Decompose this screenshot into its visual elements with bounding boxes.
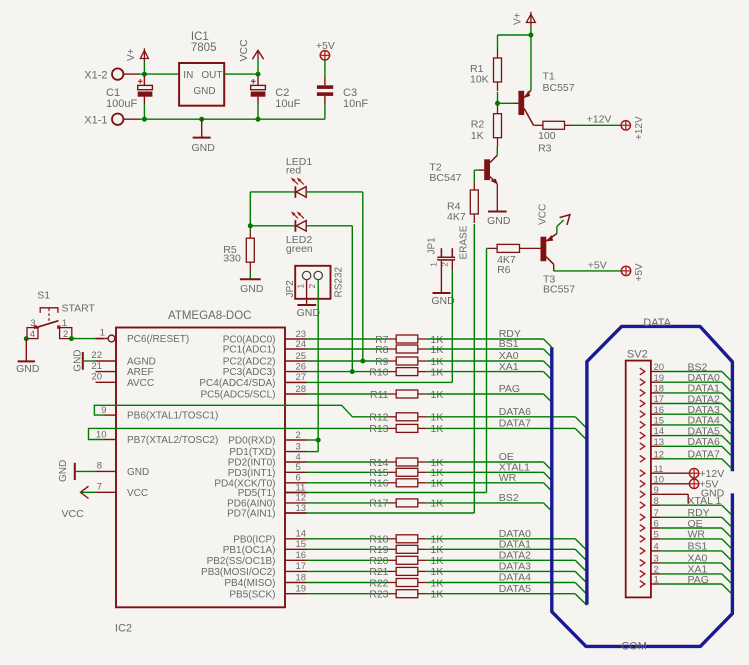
svg-text:17: 17 bbox=[296, 561, 307, 572]
svg-text:28: 28 bbox=[296, 384, 307, 395]
IC2 pin 4 PD2(INT0) bbox=[228, 452, 307, 469]
IC2 pin 14 PB0(ICP) bbox=[233, 529, 306, 546]
SV2 pin 19 (DATA0) bbox=[640, 372, 732, 392]
svg-text:GND: GND bbox=[73, 349, 84, 371]
svg-text:RS232: RS232 bbox=[333, 266, 344, 297]
svg-text:DATA7: DATA7 bbox=[688, 449, 720, 461]
transistor T3 BC557 (PNP) bbox=[541, 234, 576, 296]
SV2 pin 14 (DATA5) bbox=[640, 425, 732, 445]
IC2 pin 23 PC0(ADC0) bbox=[223, 329, 307, 346]
svg-text:1K: 1K bbox=[431, 498, 444, 510]
svg-text:AVCC: AVCC bbox=[127, 378, 154, 389]
IC2 pin 26 PC3(ADC3) bbox=[223, 361, 307, 378]
svg-text:PC5(ADC5/SCL): PC5(ADC5/SCL) bbox=[200, 390, 275, 401]
svg-text:20: 20 bbox=[91, 372, 102, 383]
svg-text:DATA7: DATA7 bbox=[499, 418, 531, 430]
svg-text:R17: R17 bbox=[369, 498, 388, 510]
ground symbol below T2 bbox=[487, 212, 511, 228]
wire net RDY to bus bbox=[427, 339, 552, 347]
svg-text:SV2: SV2 bbox=[627, 349, 648, 361]
resistor R16 1K (WR) bbox=[307, 478, 444, 490]
bus COM bbox=[552, 347, 733, 652]
svg-text:R22: R22 bbox=[369, 577, 388, 589]
svg-text:DATA5: DATA5 bbox=[499, 583, 531, 595]
supply symbol V+ (left) bbox=[126, 48, 149, 74]
connector JP2 RS232 bbox=[285, 266, 344, 299]
svg-text:13: 13 bbox=[296, 503, 307, 514]
svg-text:IN: IN bbox=[183, 70, 193, 81]
svg-text:1: 1 bbox=[295, 284, 305, 289]
supply pad +5V (T3) bbox=[621, 263, 645, 281]
bus DATA bbox=[587, 317, 733, 604]
svg-text:ERASE: ERASE bbox=[458, 225, 469, 259]
net label OE bbox=[499, 451, 514, 463]
resistor R19 1K (DATA1) bbox=[307, 544, 444, 556]
IC2 pin 28 PC5(ADC5/SCL) bbox=[200, 384, 306, 401]
svg-text:+5V: +5V bbox=[588, 259, 607, 271]
svg-text:XTAL 1: XTAL 1 bbox=[688, 495, 722, 507]
net label BS1 bbox=[499, 338, 519, 350]
svg-text:24: 24 bbox=[296, 339, 307, 350]
svg-text:R23: R23 bbox=[369, 589, 388, 601]
svg-text:+5V: +5V bbox=[634, 263, 645, 281]
svg-text:1K: 1K bbox=[431, 589, 444, 601]
wire LED2 bbox=[250, 192, 352, 372]
IC2 pin 18 PB4(MISO) bbox=[224, 572, 306, 589]
SV2 pin 18 (DATA1) bbox=[640, 383, 732, 403]
svg-text:R8: R8 bbox=[375, 344, 389, 356]
resistor R2 1K bbox=[471, 105, 502, 147]
IC2 pin 11 PD5(T1) bbox=[238, 482, 307, 499]
SV2 pin 1 (PAG) bbox=[640, 574, 732, 594]
svg-text:R10: R10 bbox=[369, 366, 388, 378]
wire PB6 loop to R12 (XTAL1 net) bbox=[94, 405, 387, 417]
svg-text:5: 5 bbox=[296, 462, 301, 473]
svg-text:11: 11 bbox=[296, 482, 306, 493]
svg-text:1K: 1K bbox=[431, 478, 444, 490]
resistor R13 1K (DATA7) bbox=[369, 423, 443, 435]
ground symbol below JP2 bbox=[297, 305, 321, 319]
wire T2 base to R4 bbox=[474, 170, 478, 181]
resistor R15 1K (XTAL1) bbox=[307, 467, 444, 479]
svg-text:1: 1 bbox=[654, 575, 659, 586]
IC2 pin 1 PC6(/RESET) bbox=[96, 328, 190, 345]
SV2 pin 13 (DATA6) bbox=[640, 436, 732, 456]
SV2 pin 2 (XA1) bbox=[640, 564, 732, 584]
IC2 pin 15 PB1(OC1A) bbox=[223, 539, 307, 556]
SV2 pin 4 (BS1) bbox=[640, 541, 732, 561]
SV2 pin 3 (XA0) bbox=[640, 553, 732, 573]
svg-text:PB6(XTAL1/TOSC1): PB6(XTAL1/TOSC1) bbox=[127, 411, 218, 422]
wire LED1 anode/cathode bbox=[250, 192, 362, 361]
ground symbol below R5 bbox=[240, 279, 264, 295]
svg-text:15: 15 bbox=[296, 539, 307, 550]
net label DATA5 bbox=[499, 583, 531, 595]
svg-text:BC557: BC557 bbox=[543, 82, 575, 94]
svg-text:START: START bbox=[62, 303, 96, 315]
svg-text:+12V: +12V bbox=[587, 114, 612, 126]
IC2 pin 10 PB7(XTAL2/TOSC2) bbox=[96, 429, 218, 446]
svg-text:1K: 1K bbox=[431, 412, 444, 424]
net label RDY bbox=[499, 328, 521, 340]
node junctions on ground rail bbox=[142, 117, 261, 122]
wire net BS2 to bus bbox=[427, 503, 552, 511]
IC2 pin 12 PD6(AIN0) bbox=[227, 493, 306, 510]
wire R6 to IC2 PD5 (pin 11) bbox=[285, 248, 488, 492]
svg-text:2: 2 bbox=[296, 430, 301, 441]
SV2 pin 10 (+5V) bbox=[640, 474, 719, 490]
svg-text:WR: WR bbox=[688, 529, 706, 541]
SV2 pin 8 (XTAL 1) bbox=[640, 495, 732, 515]
svg-text:BS1: BS1 bbox=[688, 541, 708, 553]
connector pad X1-1 bbox=[84, 114, 123, 127]
wire PD1 to JP2 line bbox=[307, 451, 319, 453]
svg-text:VCC: VCC bbox=[537, 204, 548, 225]
node junctions at S1 bbox=[24, 336, 74, 341]
supply pad +12V (T1) bbox=[621, 116, 645, 140]
svg-text:DATA4: DATA4 bbox=[499, 572, 531, 584]
svg-text:10: 10 bbox=[96, 429, 107, 440]
supply pad +5V (top) bbox=[316, 40, 335, 60]
resistor R17 1K (BS2) bbox=[307, 498, 444, 510]
IC2 ATMEGA8-DOC box bbox=[115, 310, 285, 635]
svg-text:4: 4 bbox=[30, 329, 35, 340]
net label DATA0 bbox=[499, 528, 531, 540]
wire ground rail X1-1 to C3 bbox=[123, 118, 325, 120]
svg-text:AREF: AREF bbox=[127, 367, 154, 378]
svg-text:red: red bbox=[286, 164, 301, 176]
node junction V+/T1 emitter bbox=[528, 33, 533, 38]
svg-text:GND: GND bbox=[240, 283, 264, 295]
resistor R18 1K (DATA0) bbox=[307, 534, 444, 546]
LED2 green bbox=[286, 211, 313, 255]
IC2 pin 13 PD7(AIN1) bbox=[227, 503, 306, 520]
wire X1-2 to IC1 IN bbox=[123, 73, 179, 75]
svg-text:GND: GND bbox=[297, 307, 321, 319]
wire R3 to +12V pad bbox=[574, 114, 622, 126]
svg-text:1K: 1K bbox=[431, 389, 444, 401]
SV2 pin 17 (DATA2) bbox=[640, 393, 732, 413]
svg-text:PC1(ADC1): PC1(ADC1) bbox=[223, 345, 276, 356]
connector pad X1-2 bbox=[84, 68, 123, 81]
svg-text:PB1(OC1A): PB1(OC1A) bbox=[223, 545, 276, 556]
IC2 pin 9 PB6(XTAL1/TOSC1) bbox=[101, 405, 218, 422]
svg-text:ATMEGA8-DOC: ATMEGA8-DOC bbox=[168, 310, 252, 322]
svg-text:1K: 1K bbox=[431, 423, 444, 435]
wire net DATA5 to bus bbox=[427, 594, 587, 606]
SV2 pin 11 (+12V) bbox=[640, 464, 724, 480]
IC2 pin 7 VCC bbox=[96, 482, 149, 499]
IC2 pin 2 PD0(RXD) bbox=[228, 430, 306, 447]
svg-text:27: 27 bbox=[296, 372, 307, 383]
resistor R10 1K (XA1) bbox=[307, 366, 444, 378]
svg-text:VCC: VCC bbox=[238, 39, 250, 62]
svg-text:PD1(TXD): PD1(TXD) bbox=[229, 447, 275, 458]
capacitor C2 10uF bbox=[251, 76, 301, 119]
svg-text:2: 2 bbox=[63, 329, 68, 340]
wire net DATA6 to bus bbox=[427, 417, 587, 429]
SV2 pin 12 (DATA7) bbox=[640, 449, 732, 469]
svg-text:4: 4 bbox=[654, 542, 659, 553]
wire V+ rail to R1 top bbox=[498, 35, 531, 49]
resistor R22 1K (DATA4) bbox=[307, 577, 444, 589]
svg-text:BS2: BS2 bbox=[499, 492, 519, 504]
svg-text:R13: R13 bbox=[369, 423, 388, 435]
svg-text:PC2(ADC2): PC2(ADC2) bbox=[223, 357, 276, 368]
svg-text:PB4(MISO): PB4(MISO) bbox=[224, 578, 275, 589]
IC2 pin 22 AGND bbox=[91, 350, 155, 367]
svg-text:100uF: 100uF bbox=[106, 98, 137, 110]
supply symbol VCC (T3) bbox=[537, 204, 570, 234]
svg-text:R16: R16 bbox=[369, 478, 388, 490]
IC2 pin 27 PC4(ADC4/SDA) bbox=[199, 372, 306, 389]
supply symbol VCC (top-left) bbox=[238, 39, 264, 74]
IC2 pin 6 PD4(XCK/T0) bbox=[214, 473, 306, 490]
IC2 pin 3 PD1(TXD) bbox=[229, 441, 306, 458]
svg-text:AGND: AGND bbox=[127, 357, 156, 368]
wire PD0 to JP2 line bbox=[307, 439, 319, 441]
svg-text:V+: V+ bbox=[126, 48, 137, 61]
svg-text:JP2: JP2 bbox=[285, 280, 296, 298]
resistor R14 1K (OE) bbox=[307, 457, 444, 469]
svg-text:4K7: 4K7 bbox=[447, 211, 466, 223]
svg-text:GND: GND bbox=[193, 86, 215, 97]
svg-text:1K: 1K bbox=[431, 366, 444, 378]
svg-text:R2: R2 bbox=[471, 119, 485, 131]
svg-text:7805: 7805 bbox=[191, 42, 217, 54]
svg-text:10uF: 10uF bbox=[275, 98, 300, 110]
svg-text:PB2(SS/OC1B): PB2(SS/OC1B) bbox=[207, 556, 276, 567]
svg-text:1K: 1K bbox=[431, 577, 444, 589]
svg-text:VCC: VCC bbox=[127, 488, 148, 499]
wire IC1 OUT to VCC node bbox=[224, 73, 258, 75]
wire net DATA0 to bus bbox=[427, 539, 587, 551]
net label XTAL1 bbox=[499, 462, 530, 474]
net label XA1 bbox=[499, 361, 519, 373]
resistor R20 1K (DATA2) bbox=[307, 555, 444, 567]
node junction R1/R2/T1 base bbox=[495, 101, 500, 106]
svg-text:R3: R3 bbox=[538, 142, 552, 154]
svg-text:PC4(ADC4/SDA): PC4(ADC4/SDA) bbox=[199, 378, 275, 389]
ground symbol below JP1 bbox=[431, 293, 455, 307]
svg-text:3: 3 bbox=[654, 554, 659, 565]
net label BS2 bbox=[499, 492, 519, 504]
svg-text:DATA6: DATA6 bbox=[499, 406, 531, 418]
SV2 pin 20 (BS2) bbox=[640, 361, 732, 381]
node junction rail/C1 bbox=[142, 72, 147, 77]
svg-text:PD0(RXD): PD0(RXD) bbox=[228, 436, 275, 447]
IC2 pin 17 PB3(MOSI/OC2) bbox=[201, 561, 306, 578]
svg-text:BC557: BC557 bbox=[543, 283, 575, 295]
svg-text:X1-2: X1-2 bbox=[84, 69, 107, 81]
net label PAG bbox=[499, 383, 520, 395]
svg-text:PB0(ICP): PB0(ICP) bbox=[233, 534, 275, 545]
svg-text:COM: COM bbox=[621, 641, 647, 653]
net label DATA1 bbox=[499, 539, 531, 551]
wire R1 to T1 base bbox=[498, 92, 514, 103]
node junction LED1/LED2/R5 bbox=[248, 223, 253, 228]
svg-text:6: 6 bbox=[654, 519, 659, 530]
resistor R9 1K (XA0) bbox=[307, 356, 444, 368]
IC2 pin 25 PC2(ADC2) bbox=[223, 351, 307, 368]
net label DATA2 bbox=[499, 550, 531, 562]
resistor R6 4K7 bbox=[488, 244, 540, 276]
svg-text:JP1: JP1 bbox=[427, 237, 438, 255]
wire net WR to bus bbox=[427, 483, 552, 491]
svg-text:PB5(SCK): PB5(SCK) bbox=[229, 589, 275, 600]
svg-text:R12: R12 bbox=[369, 412, 388, 424]
wire net DATA2 to bus bbox=[427, 560, 587, 572]
svg-text:22: 22 bbox=[91, 350, 102, 361]
SV2 pin 5 (WR) bbox=[640, 529, 732, 549]
svg-text:21: 21 bbox=[91, 361, 102, 372]
IC2 pin 19 PB5(SCK) bbox=[229, 584, 306, 601]
svg-text:T1: T1 bbox=[543, 71, 555, 83]
svg-text:1K: 1K bbox=[431, 344, 444, 356]
resistor R5 330 bbox=[223, 229, 254, 271]
wire net DATA4 to bus bbox=[427, 583, 587, 595]
wire net PAG to bus bbox=[427, 394, 552, 402]
IC2 pin 20 AVCC bbox=[91, 372, 154, 389]
wire S1 to IC2 pin1 bbox=[72, 338, 104, 340]
node junction rail/C2 bbox=[256, 72, 261, 77]
svg-text:GND: GND bbox=[16, 363, 40, 375]
svg-text:PB3(MOSI/OC2): PB3(MOSI/OC2) bbox=[201, 567, 275, 578]
capacitor C3 10nF bbox=[317, 60, 368, 119]
resistor R3 100 bbox=[534, 121, 574, 154]
svg-text:19: 19 bbox=[296, 584, 307, 595]
wire S1 pin4 to ground bbox=[25, 339, 27, 362]
svg-text:25: 25 bbox=[296, 351, 307, 362]
resistor R21 1K (DATA3) bbox=[307, 566, 444, 578]
voltage regulator IC1 7805 bbox=[179, 31, 224, 106]
resistor R11 1K (PAG) bbox=[307, 389, 444, 401]
wire JP1 pin2 to IC2 PC4 (pin 27) bbox=[285, 261, 452, 383]
svg-text:8: 8 bbox=[654, 496, 659, 507]
svg-text:BS1: BS1 bbox=[499, 338, 519, 350]
resistor R4 4K7 bbox=[447, 181, 478, 223]
wire PB7 loop to R13 bbox=[89, 428, 388, 439]
wire net XTAL1 to bus bbox=[427, 472, 552, 480]
node junction JP2 wire to PD0 row bbox=[316, 438, 321, 443]
svg-text:9: 9 bbox=[101, 405, 106, 416]
svg-text:9: 9 bbox=[654, 485, 659, 496]
svg-text:PD7(AIN1): PD7(AIN1) bbox=[227, 509, 275, 520]
wire net XA1 to bus bbox=[427, 372, 552, 380]
svg-text:5: 5 bbox=[654, 530, 659, 541]
net label DATA6 bbox=[499, 406, 531, 418]
svg-text:PC6(/RESET): PC6(/RESET) bbox=[127, 334, 189, 345]
svg-text:100: 100 bbox=[538, 130, 556, 142]
svg-text:3: 3 bbox=[296, 441, 301, 452]
wire ERASE net R4 to IC2 PD7 bbox=[285, 224, 474, 513]
svg-text:PD3(INT1): PD3(INT1) bbox=[228, 468, 276, 479]
supply symbol VCC at pin 7 bbox=[62, 486, 96, 520]
svg-text:1: 1 bbox=[100, 328, 105, 339]
svg-text:WR: WR bbox=[499, 472, 517, 484]
svg-text:BC547: BC547 bbox=[429, 172, 461, 184]
ground symbol at AGND pin 22 bbox=[73, 349, 96, 371]
net label XA0 bbox=[499, 350, 519, 362]
svg-text:10K: 10K bbox=[470, 74, 489, 86]
IC2 pin 5 PD3(INT1) bbox=[228, 462, 307, 479]
wire R5 to ground bbox=[249, 271, 251, 279]
wire net DATA7 to bus bbox=[427, 428, 587, 440]
svg-text:green: green bbox=[286, 243, 313, 255]
resistor R23 1K (DATA5) bbox=[307, 589, 444, 601]
svg-text:10nF: 10nF bbox=[343, 98, 368, 110]
svg-text:1K: 1K bbox=[471, 130, 484, 142]
wire JP1 pin1 to ground bbox=[440, 261, 442, 293]
svg-text:PD5(T1): PD5(T1) bbox=[238, 488, 276, 499]
IC2 pin 24 PC1(ADC1) bbox=[223, 339, 307, 356]
net label DATA3 bbox=[499, 561, 531, 573]
svg-text:GND: GND bbox=[487, 215, 511, 227]
svg-text:PAG: PAG bbox=[688, 574, 709, 586]
resistor R7 1K (RDY) bbox=[307, 334, 444, 346]
svg-text:7: 7 bbox=[97, 482, 102, 493]
svg-text:R6: R6 bbox=[497, 264, 511, 276]
svg-text:330: 330 bbox=[223, 252, 241, 264]
svg-text:R11: R11 bbox=[370, 389, 389, 401]
IC2 pin 16 PB2(SS/OC1B) bbox=[207, 550, 307, 567]
wire JP2 pin2 to PD0/PD1 bbox=[317, 280, 319, 452]
net label DATA7 bbox=[499, 418, 531, 430]
jumper JP1 bbox=[427, 237, 455, 267]
svg-text:2: 2 bbox=[307, 284, 317, 289]
svg-text:GND: GND bbox=[58, 460, 69, 482]
svg-text:+5V: +5V bbox=[316, 40, 335, 52]
svg-text:PB7(XTAL2/TOSC2): PB7(XTAL2/TOSC2) bbox=[127, 435, 218, 446]
IC2 pin 8 GND bbox=[96, 461, 150, 478]
svg-text:VCC: VCC bbox=[62, 508, 85, 520]
node junction LED2 wire to PC3 row bbox=[350, 369, 355, 374]
connector SV2 box bbox=[626, 349, 651, 598]
svg-text:PC3(ADC3): PC3(ADC3) bbox=[223, 367, 276, 378]
SV2 pin 7 (RDY) bbox=[640, 507, 732, 527]
ground symbol below IC1 bbox=[192, 119, 216, 154]
svg-text:DATA: DATA bbox=[643, 317, 671, 329]
svg-text:DATA6: DATA6 bbox=[688, 436, 720, 448]
svg-text:+12V: +12V bbox=[634, 116, 645, 140]
node junction LED1 wire to PC2 row bbox=[360, 359, 365, 364]
ground symbol below S1 bbox=[16, 361, 40, 375]
SV2 pin 6 (OE) bbox=[640, 518, 732, 538]
SV2 pin 16 (DATA3) bbox=[640, 404, 732, 424]
svg-text:PAG: PAG bbox=[499, 383, 520, 395]
svg-text:V+: V+ bbox=[512, 12, 523, 25]
net label ERASE (rotated) bbox=[458, 225, 469, 259]
svg-text:18: 18 bbox=[296, 572, 307, 583]
SV2 pin 15 (DATA4) bbox=[640, 415, 732, 435]
transistor T1 BC557 (PNP) bbox=[514, 35, 575, 125]
wire net BS1 to bus bbox=[427, 349, 552, 357]
svg-text:OUT: OUT bbox=[201, 70, 222, 81]
IC2 pin 21 AREF bbox=[91, 361, 153, 378]
net label DATA4 bbox=[499, 572, 531, 584]
wire JP2 pin1 to ground bbox=[306, 280, 308, 305]
ground symbol at GND pin 8 bbox=[58, 460, 96, 482]
svg-text:26: 26 bbox=[296, 361, 307, 372]
resistor R1 10K bbox=[470, 49, 502, 91]
wire net DATA3 to bus bbox=[427, 571, 587, 583]
resistor R8 1K (BS1) bbox=[307, 344, 444, 356]
wire net OE to bus bbox=[427, 462, 552, 470]
net label WR bbox=[499, 472, 517, 484]
wire net DATA1 to bus bbox=[427, 549, 587, 561]
svg-text:GND: GND bbox=[192, 142, 216, 154]
svg-text:7: 7 bbox=[654, 508, 659, 519]
